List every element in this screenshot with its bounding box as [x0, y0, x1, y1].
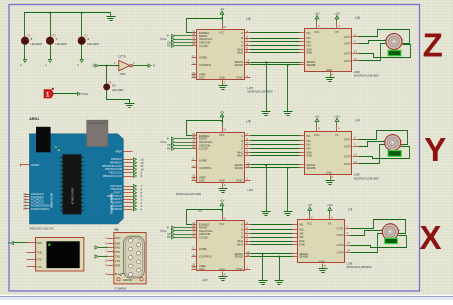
svg-text:Z: Z	[31, 37, 33, 41]
svg-text:L298: L298	[354, 70, 360, 74]
inverter U7:A (4069)	[119, 60, 133, 70]
ground U5 GND pin	[219, 189, 228, 193]
junction SENS1 U6	[265, 61, 267, 63]
LED X (LED-RED)	[78, 35, 87, 45]
power +12V U8	[334, 12, 340, 23]
wire U6.INH2-ENB	[251, 52, 300, 54]
pin arduino D11	[124, 166, 134, 168]
svg-text:GND: GND	[319, 260, 325, 264]
junction SENS1 U5	[265, 164, 267, 166]
LED D3 (LED-RED)	[104, 81, 112, 90]
svg-text:IN4: IN4	[307, 44, 312, 48]
wire U4.OUT4 to motor	[359, 145, 385, 164]
svg-text:B: B	[241, 36, 243, 40]
wire U1.OUT1 to motor	[351, 220, 406, 234]
wire SENS2 ground drop U5	[287, 168, 289, 212]
motor Z readout	[388, 50, 401, 56]
wire inverter output	[133, 65, 149, 67]
virtual terminal instrument	[36, 238, 84, 272]
pin P1 DSR	[108, 243, 114, 245]
svg-text:GND: GND	[326, 171, 332, 175]
svg-text:DCD: DCD	[115, 236, 121, 240]
svg-text:ENB: ENB	[307, 154, 313, 158]
svg-text:OUT4: OUT4	[337, 251, 344, 255]
svg-text:IN3: IN3	[307, 143, 312, 147]
stepper motor X axis	[381, 224, 400, 240]
pin terminal RTS	[27, 259, 36, 261]
wire LED Y top lead	[50, 13, 52, 37]
svg-text:OUT3: OUT3	[344, 154, 351, 158]
ground SENS2 U2	[275, 281, 284, 285]
svg-text:IN1: IN1	[307, 31, 312, 35]
stepper controller U6 (L297)	[192, 17, 251, 86]
pin arduino A2	[25, 199, 30, 201]
svg-text:ERROR: ERROR	[123, 278, 132, 282]
terminal PULL	[78, 92, 81, 95]
svg-text:P1: P1	[115, 228, 119, 232]
wire logicstate to PULL	[54, 93, 78, 95]
svg-text:HOME: HOME	[199, 56, 207, 60]
svg-text:PB5/SCK: PB5/SCK	[111, 157, 122, 161]
svg-text:MODFILE=L298.MDF: MODFILE=L298.MDF	[354, 176, 380, 180]
svg-text:CLOCK: CLOCK	[199, 44, 208, 48]
arduino ARD1 board	[30, 134, 124, 224]
svg-text:ENB: ENB	[307, 51, 313, 55]
svg-text:SENS2: SENS2	[234, 63, 243, 67]
svg-text:OSC: OSC	[199, 76, 205, 80]
svg-text:L297: L297	[248, 188, 254, 192]
stepper motor Y axis	[383, 135, 402, 151]
pin arduino A4	[25, 205, 30, 207]
wire U2.INH1-ENA	[251, 241, 293, 243]
pin P1 RTS	[108, 251, 114, 253]
power +12V U1	[327, 203, 333, 214]
svg-text:C: C	[241, 40, 243, 44]
wire to P1 RXD	[99, 247, 108, 249]
svg-text:OUT3: OUT3	[344, 52, 351, 56]
svg-text:B: B	[241, 228, 243, 232]
svg-text:U1: U1	[348, 208, 352, 212]
svg-text:PD0/RXD: PD0/RXD	[111, 207, 122, 211]
wire U2.SENS1 to U1.SENSA	[251, 253, 293, 255]
LED Y (LED-RED)	[46, 35, 55, 45]
driver U4 (L298)	[300, 119, 360, 181]
pin AREF	[124, 151, 133, 153]
motor Y readout	[388, 151, 401, 157]
pin arduino D6	[124, 189, 134, 191]
svg-text:IN4: IN4	[299, 235, 304, 239]
svg-text:L298: L298	[347, 261, 353, 265]
svg-text:PB2/SS/OC1B: PB2/SS/OC1B	[105, 167, 122, 171]
svg-text:INH2: INH2	[237, 242, 243, 246]
svg-text:CLOCK: CLOCK	[199, 147, 208, 151]
pin arduino D1	[124, 206, 134, 208]
svg-text:OUT2: OUT2	[344, 144, 351, 148]
pin terminal RXD	[27, 242, 36, 244]
svg-text:RTS: RTS	[115, 250, 120, 254]
svg-text:SYNC: SYNC	[236, 267, 243, 271]
svg-text:GND: GND	[219, 267, 225, 271]
svg-text:SENSB: SENSB	[307, 166, 316, 170]
wire U6.C-IN3	[251, 41, 300, 43]
driver U8 (L298)	[300, 16, 360, 78]
power +12V U4	[334, 114, 340, 125]
svg-text:VCC: VCC	[219, 30, 225, 34]
svg-text:VCC: VCC	[314, 30, 320, 34]
input terminals for U6	[161, 34, 192, 48]
svg-text:B: B	[241, 139, 243, 143]
svg-text:LED-RED: LED-RED	[112, 88, 124, 92]
terminal below LED X	[80, 60, 83, 63]
svg-text:CLOCK: CLOCK	[199, 235, 208, 239]
svg-text:IN1: IN1	[299, 223, 304, 227]
svg-text:Y: Y	[424, 131, 446, 168]
power +5V rail U5	[187, 110, 225, 136]
svg-text:RXD: RXD	[115, 245, 121, 249]
svg-text:A5: A5	[23, 207, 27, 211]
svg-text:RESET: RESET	[31, 163, 40, 167]
wire U5.B-IN2	[251, 140, 300, 142]
svg-text:OUT4: OUT4	[344, 59, 351, 63]
svg-text:D: D	[241, 44, 243, 48]
wire U1.OUT3 to motor	[351, 236, 407, 248]
logicstate 1	[44, 90, 54, 98]
svg-text:B: B	[93, 63, 95, 67]
svg-text:+12V: +12V	[334, 114, 340, 118]
terminal inverter output	[148, 64, 151, 67]
svg-text:IN4: IN4	[307, 146, 312, 150]
svg-text:B: B	[153, 63, 155, 67]
svg-text:PD6/AIN0: PD6/AIN0	[110, 187, 122, 191]
svg-text:U6: U6	[246, 17, 250, 21]
svg-text:TXD: TXD	[115, 254, 120, 258]
svg-text:IN2: IN2	[307, 139, 312, 143]
input terminals for U5	[161, 137, 192, 151]
ground SENS1 U6	[262, 112, 271, 116]
wire U4.OUT2 to motor	[359, 142, 385, 147]
svg-text:FB: FB	[167, 235, 171, 239]
svg-text:IN2: IN2	[299, 228, 304, 232]
pin arduino D3	[124, 199, 134, 201]
svg-text:Y: Y	[56, 37, 58, 41]
pin arduino D2	[124, 202, 134, 204]
wire U2.D-IN4	[251, 237, 293, 239]
power +5V rail U6	[187, 7, 225, 33]
svg-text:LED-RED: LED-RED	[31, 42, 43, 46]
svg-text:SENSB: SENSB	[299, 255, 308, 259]
arduino ON led	[55, 146, 57, 148]
svg-text:L297: L297	[248, 86, 254, 90]
svg-text:X: X	[76, 64, 80, 66]
svg-text:SYNC: SYNC	[236, 178, 243, 182]
stepper controller U2 (L297)	[192, 209, 251, 277]
wire U6.INH1-ENA	[251, 49, 300, 51]
pin arduino A0	[25, 194, 30, 196]
ground D3	[125, 104, 135, 108]
arduino MCU ATMEGA328P	[60, 154, 83, 214]
svg-text:MODFILE=L298.MDF: MODFILE=L298.MDF	[354, 74, 380, 78]
svg-text:U4: U4	[355, 119, 359, 123]
svg-text:COMPIM: COMPIM	[115, 286, 127, 290]
wire U8.OUT2 to motor	[359, 41, 387, 44]
svg-text:+5V: +5V	[315, 114, 320, 118]
wire U4.OUT3 to motor	[359, 147, 410, 159]
wire inverter input	[99, 65, 119, 67]
svg-text:PULL: PULL	[82, 92, 89, 96]
svg-text:IN2: IN2	[307, 36, 312, 40]
svg-text:PB0/ICP1/CLKO: PB0/ICP1/CLKO	[103, 174, 122, 178]
ground U8 GND pin	[326, 78, 335, 82]
svg-text:MODFILE=L297.MDF: MODFILE=L297.MDF	[176, 192, 202, 196]
svg-text:Y: Y	[44, 64, 48, 66]
pin P1 TXD	[108, 256, 114, 258]
svg-text:X: X	[420, 219, 442, 256]
pin arduino A3	[25, 202, 30, 204]
svg-text:D3: D3	[112, 83, 116, 87]
wire LED Y bottom lead	[50, 45, 52, 60]
svg-text:GND: GND	[326, 68, 332, 72]
wire SENS1 ground drop U6	[266, 63, 268, 112]
wire LED X bottom lead	[81, 45, 83, 60]
power +5V U8	[315, 12, 320, 23]
wire LED supply rail	[25, 13, 111, 37]
pin P1 RXD	[108, 247, 114, 249]
wire D3 top lead	[106, 66, 108, 84]
svg-text:B: B	[167, 225, 169, 229]
wire SENS1 ground drop U5	[266, 165, 268, 212]
wire to P1 TXD	[99, 256, 108, 258]
svg-text:OUT1: OUT1	[344, 35, 351, 39]
svg-text:TXD: TXD	[37, 250, 42, 254]
wire LED Z bottom lead	[24, 45, 26, 60]
svg-text:D: D	[241, 235, 243, 239]
svg-text:AREF: AREF	[115, 150, 122, 154]
svg-text:+12V: +12V	[327, 203, 333, 207]
pin terminal TXD	[27, 252, 36, 254]
wire U5.SENS1 to U4.SENSA	[251, 164, 300, 166]
svg-text:SENS2: SENS2	[234, 255, 243, 259]
svg-text:PD3/INT1: PD3/INT1	[111, 197, 123, 201]
pin arduino D9	[124, 172, 134, 174]
wire U2.C-IN3	[251, 233, 293, 235]
svg-text:+5V: +5V	[220, 7, 225, 11]
svg-text:CTS: CTS	[115, 259, 120, 263]
wire U5.D-IN4	[251, 148, 300, 150]
svg-text:SYNC: SYNC	[236, 76, 243, 80]
junction SENS2 U5	[287, 167, 289, 169]
pin arduino D5	[124, 192, 134, 194]
svg-text:VCC: VCC	[307, 222, 313, 226]
svg-text:A: A	[241, 223, 243, 227]
svg-text:U7:A: U7:A	[119, 55, 127, 59]
wire U6.B-IN2	[251, 38, 300, 40]
stepper motor Z axis	[385, 34, 404, 50]
svg-text:DTR: DTR	[115, 263, 120, 267]
bottom status strip	[0, 295, 453, 296]
svg-text:PC5/ADC5/SCL: PC5/ADC5/SCL	[31, 207, 50, 211]
svg-text:CTS: CTS	[37, 265, 42, 269]
wire U5.A-IN1	[251, 135, 300, 137]
svg-text:VCC: VCC	[219, 222, 225, 226]
svg-text:C: C	[241, 232, 243, 236]
svg-text:FB: FB	[167, 44, 171, 48]
pin P1 RI	[108, 274, 114, 276]
svg-text:OUT2: OUT2	[344, 42, 351, 46]
wire U6.SENS1 to U8.SENSA	[251, 62, 300, 64]
pin arduino D12	[124, 162, 134, 164]
wire U5.INH2-ENB	[251, 155, 300, 157]
wire U5.C-IN3	[251, 144, 300, 146]
junction LED rail / LED X	[81, 12, 83, 14]
DB9 connector graphic	[124, 236, 145, 278]
junction SENS2 U6	[287, 64, 289, 66]
driver U1 (L298)	[293, 208, 353, 269]
svg-text:IN3: IN3	[299, 232, 304, 236]
svg-text:L298: L298	[354, 173, 360, 177]
wire D3 to ground	[107, 91, 130, 104]
svg-text:ARDUINO UNO R3: ARDUINO UNO R3	[30, 227, 55, 231]
serial port P1 (COMPIM)	[114, 233, 146, 284]
svg-text:ATMEGA328P: ATMEGA328P	[71, 187, 75, 204]
svg-text:VS: VS	[335, 30, 339, 34]
power +5V rail U2	[187, 199, 225, 225]
wire U6.A-IN1	[251, 32, 300, 34]
terminal P1 TXD	[95, 255, 98, 258]
wire U8.OUT3 to motor	[359, 45, 411, 58]
wire U5.SENS2 to U4.SENSB	[251, 167, 300, 169]
power +5V U4	[315, 114, 320, 125]
svg-text:X: X	[87, 37, 89, 41]
motor X readout	[385, 238, 398, 243]
svg-text:ANALOG IN: ANALOG IN	[50, 193, 54, 208]
svg-text:ARD1: ARD1	[29, 117, 39, 121]
junction LED rail / LED Y	[49, 12, 51, 14]
ground U6 GND pin	[219, 86, 228, 90]
ground SENS2 U6	[284, 112, 293, 116]
svg-text:+5V: +5V	[220, 110, 225, 114]
svg-text:D: D	[241, 146, 243, 150]
pin arduino D8	[124, 176, 134, 178]
wire U1.OUT4 to motor	[351, 234, 383, 253]
svg-text:U5: U5	[246, 120, 250, 124]
svg-text:HOME: HOME	[199, 158, 207, 162]
wire U6.D-IN4	[251, 45, 300, 47]
svg-text:Z: Z	[423, 26, 443, 63]
ground rail	[107, 17, 116, 21]
ground SENS1 U5	[262, 212, 271, 216]
power +5V U1	[307, 203, 312, 214]
svg-text:CONTROL: CONTROL	[199, 166, 212, 170]
pin P1 DCD	[108, 238, 114, 240]
wire U2.A-IN1	[251, 224, 293, 226]
wire RXD to terminal	[14, 242, 27, 244]
svg-text:CONTROL: CONTROL	[199, 255, 212, 259]
pin arduino D7	[124, 186, 134, 188]
wire U1.OUT2 to motor	[351, 231, 383, 236]
svg-text:IN3: IN3	[307, 40, 312, 44]
svg-text:VS: VS	[328, 222, 332, 226]
wire SENS2 ground drop U6	[287, 65, 289, 112]
svg-text:DSR: DSR	[115, 241, 121, 245]
label ERROR	[117, 278, 120, 281]
pin arduino D13	[124, 159, 134, 161]
wire U2.SENS2 to U1.SENSB	[251, 256, 293, 258]
ground SENS1 U2	[259, 281, 268, 285]
svg-text:RI: RI	[115, 272, 118, 276]
svg-text:HOME: HOME	[199, 247, 207, 251]
svg-text:OUT1: OUT1	[337, 227, 344, 231]
pin terminal CTS	[27, 266, 36, 268]
junction SENS1 U2	[262, 253, 264, 255]
wire U2.B-IN2	[251, 229, 293, 231]
terminal P1 RXD	[95, 246, 98, 249]
svg-text:A: A	[241, 31, 243, 35]
svg-text:B: B	[167, 137, 169, 141]
wire U6.SENS2 to U8.SENSB	[251, 64, 300, 66]
ground SENS2 U5	[284, 212, 293, 216]
junction SENS2 U2	[278, 256, 280, 258]
svg-text:GND: GND	[219, 179, 225, 183]
svg-text:INH2: INH2	[237, 154, 243, 158]
wire SENS1 ground drop U2	[262, 254, 264, 281]
wire U2.INH2-ENB	[251, 244, 293, 246]
wire U5.INH1-ENA	[251, 152, 300, 154]
svg-text:+12V: +12V	[334, 12, 340, 16]
svg-text:C: C	[241, 143, 243, 147]
wire LED X top lead	[81, 13, 83, 37]
svg-text:RXD: RXD	[37, 241, 43, 245]
svg-text:B: B	[167, 34, 169, 38]
svg-text:OUT4: OUT4	[344, 162, 351, 166]
svg-text:RTS: RTS	[37, 258, 42, 262]
svg-text:IN1: IN1	[307, 134, 312, 138]
svg-text:OSC: OSC	[199, 178, 205, 182]
LED Z (LED-RED)	[21, 35, 30, 45]
wire U8.OUT4 to motor	[359, 44, 387, 61]
wire U4.OUT1 to motor	[359, 131, 408, 145]
wire U8.OUT1 to motor	[359, 30, 410, 44]
pin P1 CTS	[108, 260, 114, 262]
pin arduino RESET	[21, 164, 30, 166]
wire SENS2 ground drop U2	[279, 257, 281, 281]
svg-text:FB: FB	[167, 146, 171, 150]
svg-text:GND: GND	[219, 76, 225, 80]
ground U1 GND pin	[319, 269, 328, 273]
svg-text:ENB: ENB	[299, 242, 305, 246]
ground U4 GND pin	[326, 181, 335, 185]
svg-text:+5V: +5V	[307, 203, 312, 207]
junction D3 tap	[106, 65, 108, 67]
svg-text:OUT2: OUT2	[337, 233, 344, 237]
pin 9 arrow marker	[118, 274, 125, 276]
svg-text:OSC: OSC	[199, 267, 205, 271]
arduino USB connector	[87, 120, 108, 146]
stepper controller U5 (L297)	[192, 120, 251, 189]
svg-text:OUT1: OUT1	[344, 138, 351, 142]
arduino power jack	[36, 127, 51, 153]
svg-text:L297: L297	[202, 278, 208, 282]
svg-text:OUT3: OUT3	[337, 243, 344, 247]
svg-text:MODFILE=L298.MDF: MODFILE=L298.MDF	[347, 265, 373, 269]
svg-text:SENS2: SENS2	[234, 166, 243, 170]
input terminals for U2	[161, 225, 192, 239]
svg-text:VCC: VCC	[219, 133, 225, 137]
svg-text:+5V: +5V	[315, 12, 320, 16]
terminal RXD left	[11, 241, 14, 244]
terminal below LED Y	[48, 60, 51, 63]
svg-text:A: A	[241, 134, 243, 138]
svg-text:SENSB: SENSB	[307, 63, 316, 67]
